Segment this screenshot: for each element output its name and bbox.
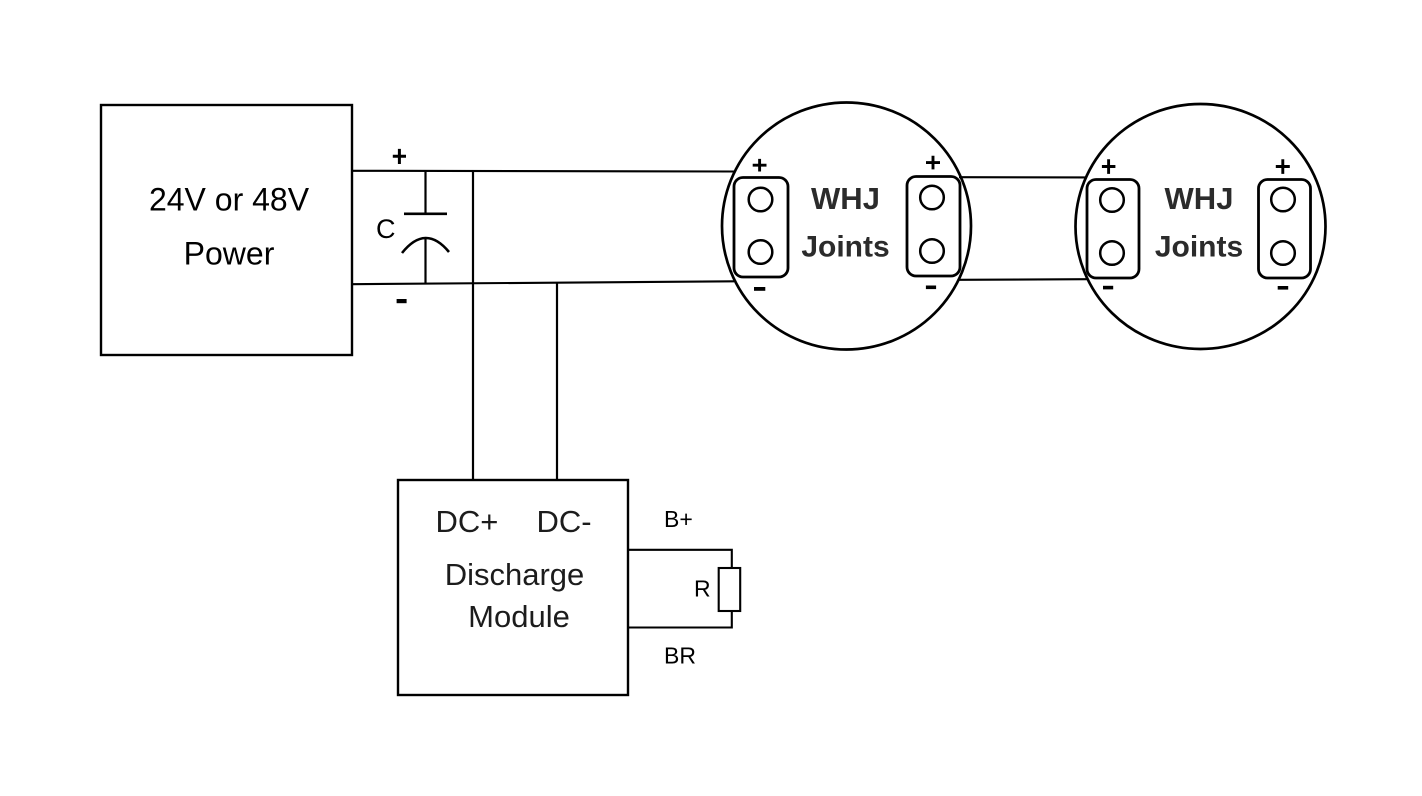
svg-text:Module: Module: [468, 599, 570, 634]
node + (joint2 left): [1102, 159, 1116, 174]
WHJ joint 2 body: [1076, 104, 1326, 349]
node - (joint1 left): [754, 287, 765, 291]
WHJ joint 1 body: [722, 103, 971, 350]
terminal block joint1 right: [907, 177, 960, 277]
node - (joint1 right): [926, 285, 936, 289]
node + (power positive): [393, 149, 406, 164]
discharge module box: [398, 480, 628, 695]
capacitor C: [402, 171, 449, 284]
node - (power negative): [397, 299, 407, 303]
svg-text:DC+: DC+: [436, 504, 499, 539]
terminal block joint2 left: [1087, 180, 1139, 279]
svg-text:WHJ: WHJ: [1165, 181, 1234, 216]
svg-text:Discharge: Discharge: [445, 557, 585, 592]
wire negative (joint1 to joint2): [958, 278, 1087, 281]
power supply box: [101, 105, 352, 355]
svg-text:Power: Power: [184, 236, 275, 272]
node + (joint2 right): [1276, 159, 1290, 174]
node + (joint1 right): [926, 156, 940, 170]
svg-text:C: C: [376, 214, 396, 244]
svg-text:WHJ: WHJ: [811, 181, 880, 216]
label 24V or 48V Power: [149, 182, 310, 272]
wire DC+ drop: [472, 171, 474, 480]
label WHJ Joints (joint 1): [801, 181, 889, 264]
svg-text:BR: BR: [664, 643, 696, 669]
svg-text:DC-: DC-: [537, 504, 592, 539]
label WHJ Joints (joint 2): [1155, 181, 1243, 264]
node - (joint2 left): [1103, 286, 1113, 290]
svg-text:B+: B+: [664, 506, 693, 532]
node + (joint1 left): [753, 159, 767, 172]
terminal block joint2 right: [1259, 180, 1311, 279]
wire negative bus (power to joint 1): [352, 281, 734, 284]
svg-text:Joints: Joints: [801, 231, 889, 264]
svg-text:Joints: Joints: [1155, 231, 1243, 264]
resistor R: [719, 568, 741, 611]
wire DC- drop: [556, 283, 558, 481]
wire positive bus (power to joint 1): [352, 170, 734, 173]
node - (joint2 right): [1278, 286, 1289, 290]
terminal block joint1 left: [734, 178, 788, 278]
svg-text:R: R: [694, 576, 711, 602]
wire resistor to BR: [627, 611, 732, 628]
label Discharge Module: [445, 557, 585, 634]
wire positive (joint1 to joint2): [959, 176, 1087, 178]
svg-text:24V or 48V: 24V or 48V: [149, 182, 310, 218]
wire B+ to resistor: [627, 550, 732, 568]
